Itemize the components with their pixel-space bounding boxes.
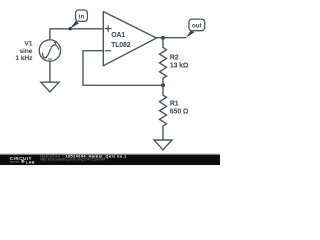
svg-text:LAB: LAB xyxy=(26,159,35,164)
svg-text:OA1: OA1 xyxy=(111,32,125,39)
voltage source V1 xyxy=(39,40,60,61)
svg-text:650 Ω: 650 Ω xyxy=(170,109,189,116)
svg-text:V1: V1 xyxy=(24,41,32,48)
wire op-amp output to out flag xyxy=(157,37,187,39)
resistor R2 xyxy=(160,38,189,86)
wire feedback from - input to R2/R1 node xyxy=(83,51,163,86)
svg-text:TL082: TL082 xyxy=(111,42,131,49)
ground (below R1) xyxy=(154,140,172,150)
net flag "in" xyxy=(69,10,88,30)
svg-text:R2: R2 xyxy=(170,55,179,62)
watermark bar xyxy=(0,154,220,165)
svg-text:sine: sine xyxy=(19,48,32,55)
net flag "out" xyxy=(186,19,205,38)
junction node between R2 and R1 xyxy=(161,83,165,87)
svg-text:1 kHz: 1 kHz xyxy=(15,55,33,62)
wire V1 top to op-amp + input xyxy=(50,29,103,40)
resistor R1 xyxy=(160,85,189,140)
label V1 value xyxy=(15,41,33,63)
svg-text:in: in xyxy=(79,14,85,21)
svg-text:http://circuitlab.com/c/mq2b47: http://circuitlab.com/c/mq2b47c3w784 xyxy=(40,157,106,162)
junction node at output xyxy=(161,36,165,40)
wire V1 bottom to ground xyxy=(49,61,51,82)
svg-text:13 kΩ: 13 kΩ xyxy=(170,63,189,70)
ground (below V1) xyxy=(41,82,59,92)
svg-text:R1: R1 xyxy=(170,101,179,108)
op-amp OA1 TL082 xyxy=(103,12,156,66)
svg-text:out: out xyxy=(192,23,203,30)
